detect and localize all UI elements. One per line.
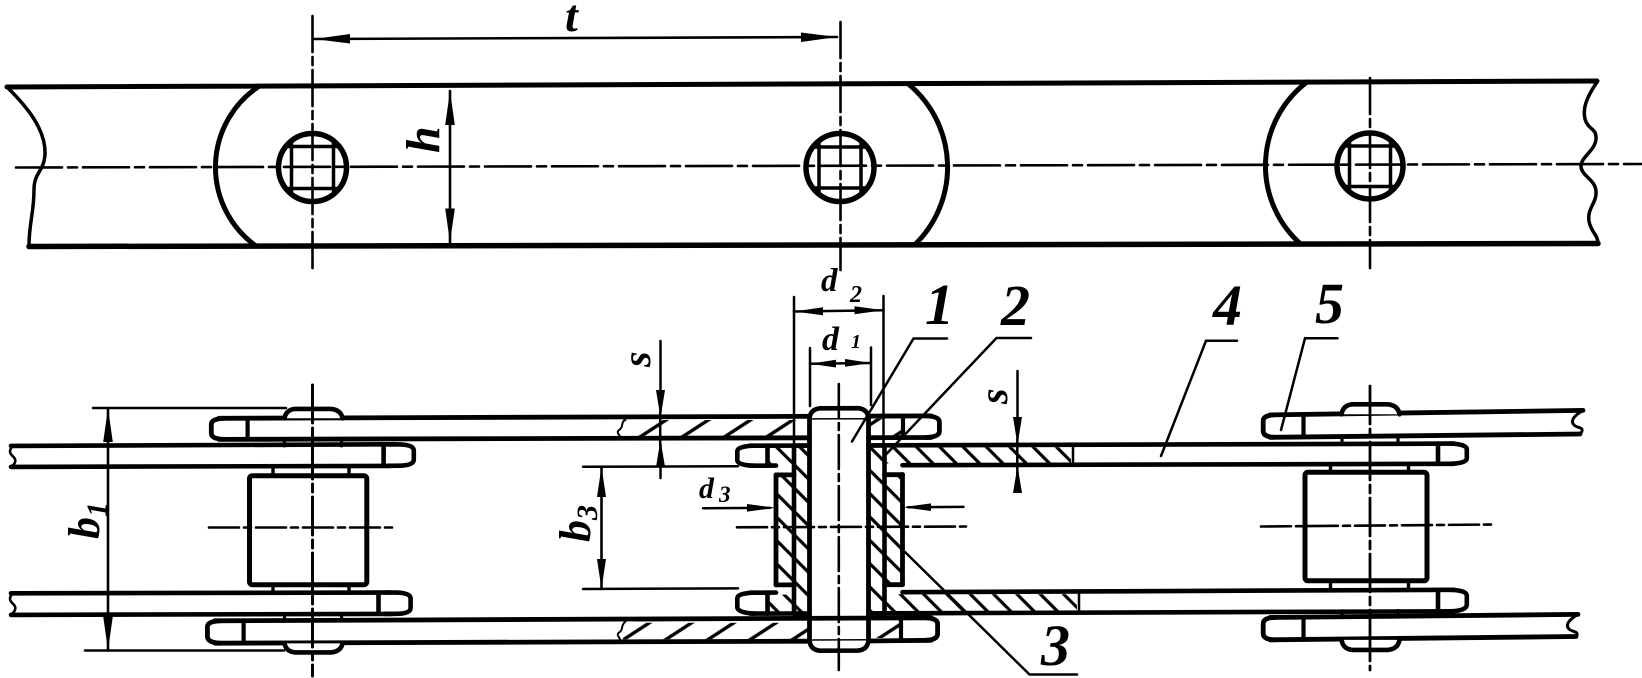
b3 bottom arrowhead (597, 559, 606, 589)
inner plate bottom-right: right end contour line (1436, 590, 1441, 611)
bushing slivers (right, bottom) (1331, 581, 1409, 589)
roller (middle): outer walls (776, 475, 903, 585)
pin (middle): bottom cap (810, 641, 869, 651)
outer plate bottom-left: left end cap (207, 621, 220, 643)
leader line part 3 (roller) (905, 552, 1077, 675)
svg-text:2: 2 (1000, 273, 1030, 338)
vertical center line (middle assembly) (837, 384, 840, 670)
inner plate bottom-right: bottom edge segments (750, 611, 1454, 613)
d3 right dimension line (908, 506, 964, 509)
svg-text:3: 3 (1040, 613, 1070, 678)
inner plate top-right: hatching (769, 448, 795, 464)
d2 dimension line (794, 310, 884, 311)
hole 3 square (1344, 141, 1396, 193)
outer plate top-right: right wavy break (1572, 410, 1583, 434)
inner plate bottom-right: left end cap (737, 593, 754, 614)
dimension h line (449, 91, 452, 243)
inner plate bottom-left: end contour line (376, 593, 381, 614)
pin slivers (right, bottom) (1342, 611, 1398, 618)
label 2 (bushing) (1000, 273, 1030, 338)
d1 left arrowhead (810, 360, 836, 368)
leader line part 2 (bushing) (885, 338, 1032, 456)
inner plate top-right: top edge segments (750, 444, 1454, 446)
d1 right arrowhead (845, 359, 871, 367)
outer plate bottom-left: right end cap (926, 618, 938, 641)
b1 dimension line (107, 408, 110, 651)
s left up arrowhead (656, 440, 665, 467)
inner plate top-left: top edge (11, 444, 395, 446)
d1 extension lines (810, 348, 871, 407)
bushing slivers (left, top) (273, 467, 349, 476)
vertical center line (right assembly) (1369, 386, 1372, 670)
label 5 (outer plate) (1315, 271, 1344, 336)
s right down arrowhead (1013, 417, 1022, 445)
leader line part 1 (pin) (852, 339, 947, 442)
outer plate bottom-right: top edge (1270, 614, 1578, 617)
svg-text:d: d (699, 472, 715, 505)
b1 top arrowhead (103, 408, 113, 442)
outer plate top-right: end contour line (1301, 415, 1305, 437)
svg-text:2: 2 (849, 282, 862, 308)
svg-text:1: 1 (925, 272, 954, 337)
outer plate top-left: left end cap (211, 418, 224, 439)
inner plate top-right: right end contour line (1436, 444, 1441, 464)
outer plate top-left: section hatching (623, 420, 810, 437)
inner plate bottom-left: right end cap (385, 593, 411, 614)
pin head top (right assembly) (1342, 404, 1400, 414)
b1 label (60, 502, 114, 539)
hole 2 vertical center line (839, 22, 842, 270)
roller (middle): hatching (778, 477, 793, 583)
svg-text:d: d (821, 263, 838, 299)
outer plate top-right: top edge (1270, 410, 1583, 415)
b1 bottom arrowhead (103, 617, 113, 651)
leader line part 5 (outer plate) (1281, 338, 1338, 430)
s left lower line (659, 444, 662, 478)
b1 bottom extension line (85, 649, 284, 652)
dimension t right arrowhead (801, 33, 837, 43)
hole 3 vertical center line (1369, 78, 1372, 268)
outer plate bottom-left: section hatching (623, 623, 810, 640)
roller (right assembly) (1305, 472, 1427, 581)
s right up arrowhead (1013, 466, 1022, 493)
bushing (middle): end edges (794, 446, 885, 614)
b3 top arrowhead (597, 467, 606, 497)
outer plate bottom-left: local section break (618, 621, 626, 642)
pin slivers (left, bottom) (285, 615, 342, 621)
d1 label (822, 321, 861, 358)
hole 1 square (287, 142, 339, 194)
label 3 (roller) (1040, 613, 1070, 678)
b1 top extension line (93, 407, 286, 410)
outer plate top-left: bottom edge segments (219, 438, 931, 440)
hole 1 vertical center line (311, 16, 314, 268)
roller (left assembly) (250, 476, 367, 585)
pin head bottom (left assembly) (285, 643, 343, 652)
s right dimension upper line (1016, 371, 1019, 473)
hole 3 circle (1337, 133, 1403, 199)
horizontal center line (left assembly) (209, 526, 394, 529)
outer plate top-left: top edge (219, 416, 931, 418)
inner plate bottom-right: end contour line (765, 593, 770, 614)
b3 extension lines (583, 466, 738, 589)
bushing slivers (right, top) (1331, 465, 1409, 473)
inner plate top-left: right end cap (388, 444, 414, 466)
svg-text:s: s (614, 351, 659, 368)
inner plate bottom-right: right end cap (1450, 590, 1467, 612)
s left label (614, 351, 659, 368)
inner plate top-left: end contour line (381, 444, 386, 466)
b3 label (551, 505, 604, 542)
pin (middle): side walls (810, 418, 869, 641)
svg-text:1: 1 (851, 331, 861, 353)
dimension t line (314, 37, 837, 39)
dimension t label (565, 0, 579, 41)
inner plate bottom-left: bottom edge (11, 614, 392, 615)
inner plate bottom-left: top edge (11, 590, 390, 595)
bushing slivers (left, bottom) (273, 585, 349, 593)
inner plate top-right: bottom edge segments (750, 464, 1454, 466)
horizontal center line (top view) (16, 164, 1642, 168)
outer plate bottom-left: bottom edge segments (215, 640, 931, 643)
inner plate top-right: left end cap (737, 446, 754, 466)
inner plate bottom-right: section boundary (1078, 592, 1081, 613)
d2 right arrowhead (855, 306, 884, 314)
d2 extension lines (794, 296, 884, 446)
plate end arc at hole 1 (215, 87, 258, 246)
pin head bottom (right assembly) (1342, 640, 1400, 650)
outer plate top-left: right end cap (926, 416, 939, 438)
dimension t left arrowhead (314, 34, 350, 44)
outer plate bottom-right: left end cap (1263, 618, 1274, 640)
s left down arrowhead (656, 390, 665, 418)
d2 left arrowhead (794, 307, 823, 315)
outer plate bottom-right: right wavy break (1567, 614, 1578, 636)
outer plate bottom-right: end contour line (1301, 617, 1305, 639)
dimension h label (397, 126, 450, 153)
chain strip bottom edge (29, 244, 1598, 247)
inner plate bottom-left: left wavy break (10, 593, 15, 614)
chain strip top edge (7, 81, 1597, 87)
hole 1 circle (279, 134, 347, 202)
hole 2 square (814, 142, 866, 194)
svg-text:5: 5 (1315, 271, 1344, 336)
inner plate bottom-right: hatching (769, 595, 795, 612)
vertical center line (left assembly) (311, 385, 314, 676)
inner plate top-right: right end cap (1450, 444, 1467, 464)
svg-text:h: h (397, 126, 450, 153)
svg-text:3: 3 (718, 482, 731, 507)
pin head top (left assembly) (285, 409, 343, 418)
label 4 (inner plate) (1212, 273, 1242, 338)
plate end arc at hole 2 (909, 85, 948, 246)
right break line (wavy) (1581, 82, 1598, 244)
s left dimension upper line (659, 341, 662, 446)
outer plate bottom-left: top edge (215, 618, 931, 621)
bushing (middle): hatching (796, 447, 809, 612)
inner plate top-left: left wavy break (10, 446, 15, 467)
plate end arc at hole 3 (1265, 82, 1307, 244)
outer plate top-right: bottom edge (1270, 434, 1580, 437)
s right lower line (1016, 471, 1019, 490)
s right label (971, 388, 1016, 405)
pin slivers (right, top) (1342, 437, 1398, 444)
d3 label (699, 472, 731, 507)
inner plate top-left: bottom edge (11, 466, 390, 467)
pin slivers (left, top) (285, 439, 342, 446)
pin (middle): shoulder lines (810, 418, 869, 641)
svg-text:d: d (822, 321, 840, 358)
svg-text:t: t (565, 0, 579, 41)
inner plate bottom-right: top edge segments (750, 590, 1454, 593)
d3 left dimension line (703, 507, 770, 510)
inner plate top-right: end contour line (765, 446, 770, 466)
outer plate top-left: end contour lines (248, 416, 903, 440)
d2 label (821, 263, 862, 308)
outer plate bottom-left: end contour lines (244, 618, 901, 643)
leader line part 4 (inner plate) (1161, 341, 1237, 456)
outer plate bottom-right: bottom edge (1270, 637, 1576, 640)
d3 left arrowhead (747, 504, 776, 512)
roller (middle): end edges (776, 475, 903, 585)
label 1 (pin) (925, 272, 954, 337)
outer plate top-left: local section break (618, 419, 626, 440)
left break line (wavy) (8, 88, 45, 245)
dimension h top arrowhead (445, 91, 455, 125)
hole 2 circle (806, 134, 874, 202)
dimension h bottom arrowhead (445, 209, 455, 243)
d3 right arrowhead (903, 503, 932, 511)
svg-text:4: 4 (1212, 273, 1242, 338)
horizontal center line (middle assembly) (737, 525, 966, 528)
bushing (middle): outer walls (794, 445, 885, 613)
svg-text:s: s (971, 388, 1016, 405)
d1 dimension line (810, 362, 871, 365)
b3 dimension line (600, 467, 603, 589)
horizontal center line (right assembly) (1261, 525, 1493, 527)
outer plate top-right: left end cap (1263, 415, 1274, 437)
pin (middle): top cap (810, 408, 869, 418)
inner plate top-right: section boundary (1072, 445, 1075, 465)
